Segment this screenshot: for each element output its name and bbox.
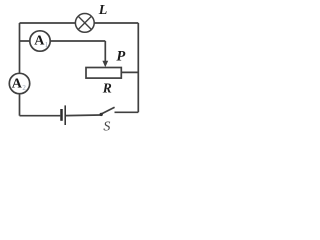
svg-text:A: A <box>34 34 45 49</box>
svg-text:L: L <box>98 3 108 18</box>
svg-text:R: R <box>102 81 112 96</box>
svg-text:1: 1 <box>45 41 49 49</box>
svg-text:A: A <box>12 77 23 92</box>
svg-text:S: S <box>103 119 110 134</box>
svg-text:2: 2 <box>22 84 26 92</box>
svg-text:P: P <box>116 48 125 64</box>
